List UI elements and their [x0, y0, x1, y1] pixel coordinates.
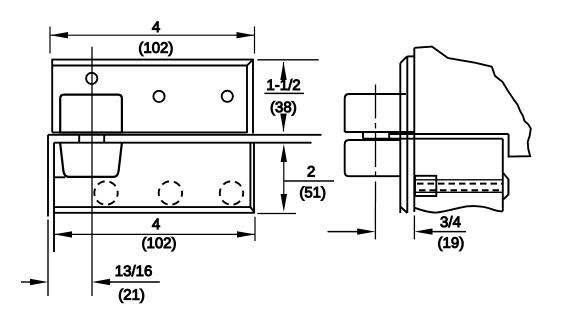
screw head: [503, 173, 508, 199]
mounting plate bottom-right bevel: [250, 207, 254, 213]
screw hole middle: [153, 91, 164, 102]
svg-text:3/4: 3/4: [440, 214, 461, 231]
mounting plate face top + extension line: [54, 142, 312, 144]
door panel edge line: [413, 48, 415, 212]
mounting plate bottom inner edge: [54, 206, 250, 208]
3/4 leader arrow: [415, 228, 433, 234]
screw thread hidden line lower: [419, 189, 502, 191]
fraction bar 2: [285, 180, 335, 182]
1-1/2 dimension arrow down: [280, 114, 286, 132]
top dimension extension line left: [49, 27, 51, 54]
side view pivot boss right: [388, 132, 390, 139]
jamb plate outer edge: [406, 56, 408, 213]
screw hole right: [222, 91, 233, 102]
side view arm top edge: [389, 133, 508, 135]
2 dimension line: [283, 160, 285, 196]
side view arm bottom edge: [363, 138, 503, 140]
top dimension arrow right: [237, 32, 255, 38]
mounting plate right inner edge: [249, 143, 251, 207]
screw shaft bottom line: [416, 191, 503, 193]
side view wing lower: [345, 140, 401, 176]
jamb plate bottom bevel: [400, 207, 407, 214]
jamb plate top edge tick: [407, 55, 414, 57]
pivot boss tick right: [103, 135, 105, 143]
13/16 leader arrow: [92, 279, 110, 285]
side view wing upper bottom edge: [345, 131, 415, 133]
bottom dimension arrow right: [237, 231, 255, 237]
svg-text:(102): (102): [141, 235, 176, 252]
centerline extension: [374, 202, 376, 239]
svg-text:4: 4: [152, 216, 160, 233]
2 dimension arrow up: [281, 144, 287, 162]
mounting plate left inner edge: [53, 143, 55, 252]
top dimension extension line right: [254, 27, 256, 54]
screw lug: [415, 176, 436, 196]
1-1/2 dimension arrow up: [280, 62, 286, 80]
svg-text:4: 4: [152, 19, 160, 36]
left extension line lower segment: [47, 220, 49, 297]
offset arrow pointing right: [30, 279, 48, 285]
screw hole top-left: [86, 73, 97, 84]
screw thread hidden line upper: [417, 183, 502, 185]
upper leaf corner bevel: [247, 60, 253, 66]
upper leaf outer edge (front view): [52, 60, 253, 134]
bottom dimension line: [54, 233, 255, 235]
mounting plate left outer edge: [47, 135, 49, 217]
svg-text:(21): (21): [118, 287, 145, 304]
pivot boss tick left: [78, 135, 80, 143]
2 dimension arrow down: [281, 194, 287, 212]
screw shaft top line: [416, 179, 503, 181]
jamb plate top bevel: [400, 56, 407, 63]
svg-text:13/16: 13/16: [115, 263, 153, 280]
svg-text:2: 2: [307, 163, 315, 180]
hinge cup lower: [60, 143, 122, 177]
hinge cup upper: [60, 95, 122, 133]
door panel break outline: [414, 47, 531, 157]
mounting plate bottom outer edge: [54, 212, 255, 214]
upper leaf inner face: [52, 66, 247, 134]
svg-text:(51): (51): [299, 184, 326, 201]
3/4 leader line: [430, 231, 466, 233]
svg-text:(38): (38): [270, 99, 297, 116]
door lower break line: [414, 206, 503, 212]
svg-text:(102): (102): [138, 40, 173, 57]
side view pivot boss left: [362, 132, 364, 139]
door lower piece right edge: [502, 139, 504, 212]
jamb plate face edge: [399, 63, 401, 213]
offset arrow right view: [357, 228, 375, 234]
hidden hole left: [94, 181, 117, 204]
svg-text:1-1/2: 1-1/2: [266, 77, 300, 94]
side view extension line right: [413, 216, 415, 240]
hidden hole middle: [159, 181, 182, 204]
bottom dimension extension right: [254, 217, 256, 241]
top dimension line: [50, 34, 255, 36]
mounting plate top edge + extension line: [48, 134, 322, 136]
upper leaf bottom edge: [52, 131, 247, 133]
bottom dimension arrow left: [54, 231, 72, 237]
svg-text:(19): (19): [438, 235, 465, 252]
side view wing upper: [345, 94, 406, 132]
13/16 leader line: [108, 281, 160, 283]
hidden hole right: [220, 181, 243, 204]
right side extension line for 1-1/2 top: [257, 59, 318, 61]
fraction bar 1-1/2: [264, 92, 304, 94]
hinge cup side flange tick: [55, 176, 65, 178]
2 dimension bottom extension line: [257, 213, 296, 215]
mounting plate right outer edge: [253, 143, 255, 213]
top dimension arrow left: [50, 32, 68, 38]
centerline front view: [91, 47, 93, 296]
screw head right face: [507, 179, 509, 194]
side view centerline: [375, 85, 377, 203]
